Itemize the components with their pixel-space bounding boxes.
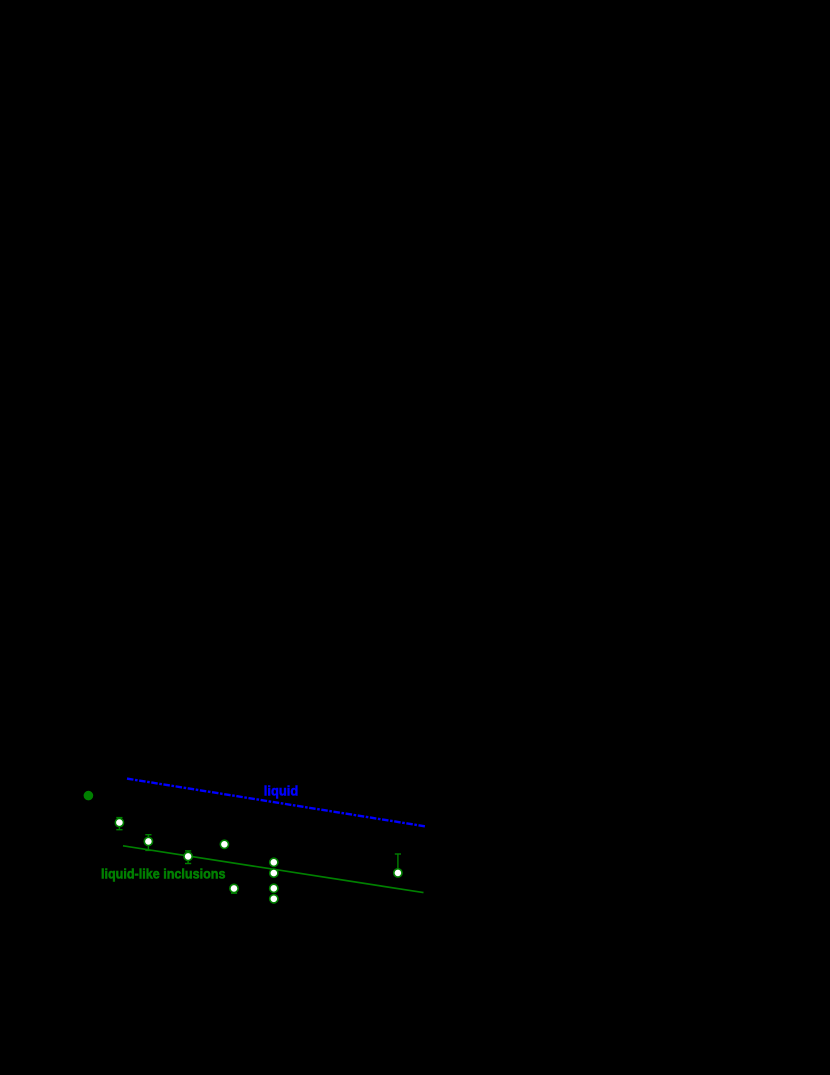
error bar P3 [185, 851, 191, 864]
data point P2 [144, 837, 152, 845]
data point P9 [230, 884, 238, 892]
svg-text:liquid: liquid [264, 783, 299, 799]
liquid-like inclusions trend line (green solid) [123, 846, 424, 893]
data point P4 [220, 840, 228, 848]
error bar P2 [145, 835, 151, 851]
error bar P10 (upper only) [395, 854, 401, 869]
data point P6 [270, 869, 278, 877]
data point P3 [184, 852, 192, 860]
error bar P1 [116, 818, 122, 830]
data point P10 [394, 869, 402, 877]
liquid melting curve (blue dash-dot line) [127, 779, 425, 827]
error bar P9 (bottom cap only visible) [231, 888, 237, 893]
data point P5 [270, 858, 278, 866]
data point P7 [270, 884, 278, 892]
data point P1 [115, 819, 123, 827]
filled green data point [84, 791, 94, 801]
svg-text:liquid-like inclusions: liquid-like inclusions [101, 866, 226, 882]
data point P8 [270, 895, 278, 903]
